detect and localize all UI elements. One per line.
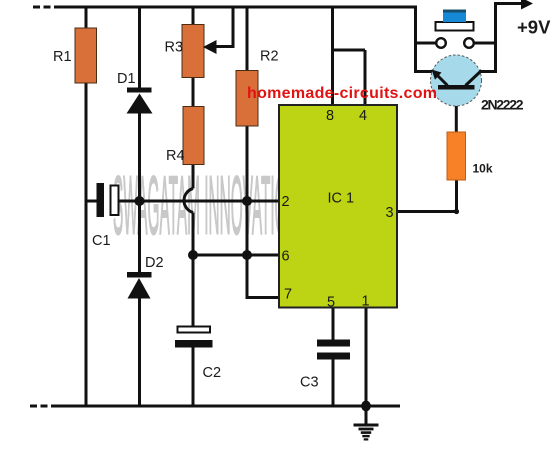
wire transistor base to 10k top	[455, 89, 458, 133]
wire R2 bottom through pin2/pin6 nodes to pin7 level	[246, 126, 249, 298]
svg-text:4: 4	[359, 108, 367, 124]
wire pin 2 line from C1 to IC	[119, 200, 281, 203]
wire button right terminal to right vertical	[474, 42, 498, 45]
svg-text:2: 2	[281, 194, 289, 210]
resistor R1	[75, 28, 97, 83]
resistor R2	[236, 71, 258, 127]
wire pin 1 to ground rail	[365, 306, 368, 406]
wire node to D2 cathode	[138, 201, 141, 273]
wire top rail dashes	[33, 6, 60, 9]
diode D1 triangle	[127, 94, 153, 114]
svg-text:D2: D2	[145, 255, 164, 271]
svg-text:R1: R1	[53, 49, 72, 65]
wire C3 bottom to ground rail	[332, 359, 335, 406]
diode D2 cathode bar	[127, 272, 152, 278]
wire bottom rail dashes	[30, 405, 57, 408]
svg-text:1: 1	[361, 294, 369, 310]
push button left terminal	[436, 38, 446, 48]
svg-text:homemade-circuits.com: homemade-circuits.com	[247, 85, 437, 102]
wire pin 6 line	[193, 254, 280, 257]
node junction dot ground	[361, 401, 371, 412]
wire R3 wiper horizontal	[214, 45, 235, 48]
wire rail to R1 top	[85, 6, 88, 30]
wire R3 bottom to R4 top	[192, 77, 195, 107]
capacitor C3 bottom plate	[317, 353, 350, 360]
wire hop to C2 top	[192, 213, 195, 328]
svg-text:R4: R4	[166, 148, 185, 164]
wire collector horizontal	[481, 70, 497, 73]
wire hop over pin2 line	[184, 189, 193, 213]
push button cap top edge	[443, 10, 466, 13]
node junction dot pin6/C2 column	[188, 250, 198, 260]
wire R3 wiper vertical to rail	[232, 6, 235, 47]
node junction dot pin3 corner	[454, 209, 459, 214]
push button body	[436, 22, 474, 31]
wire D1 anode to node at pin2 line	[138, 113, 141, 202]
svg-text:3: 3	[385, 205, 393, 221]
svg-text:7: 7	[284, 287, 292, 303]
wire pin 8 to rail	[331, 6, 334, 107]
wire to pin 7	[246, 296, 281, 299]
wire D2 anode to ground rail	[138, 298, 141, 406]
wire R4 bottom to hop	[192, 164, 195, 189]
transistor Q1 2N2222 circle	[431, 55, 482, 106]
wire +9V supply line	[494, 2, 525, 5]
wire C2 bottom to ground rail	[192, 347, 195, 406]
wire stub to C1 left plate	[86, 200, 97, 203]
+9V arrowhead	[521, 0, 533, 10]
diode D1 cathode bar	[127, 88, 152, 93]
capacitor C2 bottom plate	[175, 340, 213, 348]
capacitor C1 left plate	[97, 183, 105, 217]
push button blue cap	[443, 10, 466, 23]
wire 10k bottom to pin 3	[455, 180, 458, 213]
watermark SWAGATAM INNOVATIONS	[113, 159, 308, 252]
svg-text:R3: R3	[165, 40, 184, 56]
svg-text:2N2222: 2N2222	[481, 97, 524, 113]
wire rail corner down to emitter level	[414, 6, 417, 72]
wire to button left terminal	[416, 42, 437, 45]
transistor Q1 base bar	[438, 85, 475, 90]
svg-text:8: 8	[326, 108, 334, 124]
capacitor C1 right plate	[111, 186, 119, 216]
op-amp IC 1 body (555 timer)	[279, 105, 397, 308]
wire right vertical +9V to collector level	[494, 4, 497, 72]
wire rail to R3 top	[192, 6, 195, 26]
resistor 10k	[447, 132, 466, 180]
svg-text:C1: C1	[92, 233, 111, 249]
push button right terminal	[464, 38, 474, 48]
svg-text:IC 1: IC 1	[328, 191, 355, 207]
wire R1 bottom to ground rail	[85, 82, 88, 406]
wire pin 4 to pin 8 connector	[331, 49, 365, 52]
resistor R4	[183, 107, 204, 165]
svg-text:C3: C3	[300, 375, 319, 391]
transistor Q1 emitter diagonal	[434, 72, 448, 86]
transistor Q1 collector diagonal	[466, 71, 482, 86]
wire rail to D1 cathode	[138, 6, 141, 89]
node junction dot pin2/diode column	[135, 196, 145, 206]
transistor Q1 emitter arrowhead	[432, 70, 442, 80]
transistor Q1 emitter line	[434, 72, 448, 86]
wire pin 4 vertical	[364, 50, 367, 106]
wire top positive rail	[60, 6, 417, 9]
wire rail to R2 top	[246, 6, 249, 72]
wire ground stub	[365, 406, 368, 424]
node junction dot pin2/R2 column	[242, 196, 252, 206]
ground symbol	[354, 424, 379, 441]
svg-text:6: 6	[281, 249, 289, 265]
diode D2 triangle	[128, 278, 151, 299]
svg-text:C2: C2	[203, 365, 222, 381]
wire emitter horizontal	[414, 70, 434, 73]
wire bottom ground rail	[57, 405, 400, 408]
svg-text:10k: 10k	[473, 162, 493, 176]
capacitor C3 top plate	[317, 340, 350, 347]
wire pin 3 horizontal	[397, 210, 457, 213]
transistor Q1 collector line	[466, 71, 482, 86]
svg-text:D1: D1	[117, 71, 136, 87]
svg-text:+9V: +9V	[517, 17, 551, 38]
svg-text:R2: R2	[260, 49, 279, 65]
resistor R3 (preset)	[182, 25, 204, 78]
resistor R3 wiper arrowhead	[203, 40, 217, 54]
capacitor C2 top plate	[178, 327, 211, 333]
wire pin 5 to C3 top	[332, 306, 335, 340]
svg-text:5: 5	[327, 295, 335, 311]
node junction dot pin6/R2 column	[242, 250, 252, 260]
